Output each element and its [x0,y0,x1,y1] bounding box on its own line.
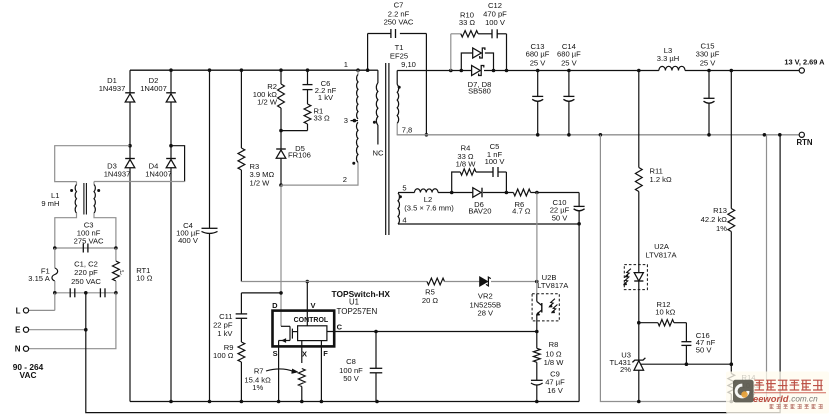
svg-text:TOPSwitch-HX: TOPSwitch-HX [332,289,391,299]
svg-text:10 kΩ: 10 kΩ [655,307,675,316]
svg-text:4: 4 [402,216,406,225]
resistor R9 100 Ohm [213,342,245,362]
svg-text:FR106: FR106 [288,151,311,160]
capacitor C3 100 nF [74,221,104,253]
wire C11 to R9 [240,318,242,342]
svg-text:VAC: VAC [20,370,37,380]
wire L1 left bottom to C3 row [55,213,77,248]
capacitor C7 2.2 nF 250 VAC [384,1,414,38]
svg-text:16 V: 16 V [547,386,564,395]
svg-text:50 V: 50 V [343,374,360,383]
inductor L2 [404,189,454,213]
wire VR2 to opto node [491,280,539,284]
winding T1 NC half [373,70,384,157]
transistor U1 internal MOSFET [279,326,298,342]
diode D3 1N4937 [104,159,135,179]
wire primary ground rail [130,400,579,404]
wire C16 to ref line [685,345,689,366]
svg-text:250 VAC: 250 VAC [384,18,414,27]
svg-text:R7: R7 [254,367,264,376]
svg-text:33 Ω: 33 Ω [314,113,331,122]
winding T1 secondary 9,10-7,8 [397,60,416,135]
svg-text:1 kV: 1 kV [318,93,334,102]
diode D1 1N4937 [99,76,135,102]
resistor R4 33 Ohm 1/8 W [456,144,477,176]
svg-text:10 Ω: 10 Ω [545,349,562,358]
resistor R6 4.7 Ohm [512,189,531,215]
wire opto emitter to C line [535,321,539,333]
wire R8 branch [536,332,538,349]
wire drain line [280,185,282,326]
svg-text:t°: t° [120,269,125,277]
wire T1 pin1 riser [357,70,359,74]
snubber R4 C5 branch [452,172,507,193]
svg-text:3.15 A: 3.15 A [28,274,50,283]
capacitor C15 330 uF 25 V [696,42,720,135]
wire R12 lead [639,322,658,324]
wire F pin [320,341,322,402]
wire R13 branch [730,71,732,209]
junction dots on B+ rail [169,68,369,72]
svg-text:25 V: 25 V [700,58,717,67]
diode D7 SB580 parallel [461,48,493,96]
inductor L3 3.3 uH [657,46,685,70]
wire AC2 bypass to D4 [171,146,185,182]
svg-text:E: E [15,326,21,335]
svg-text:25 V: 25 V [530,59,547,68]
wire AC1 from filter [55,146,130,182]
wire D4 branch [170,146,172,402]
snubber R10 C12 branch [451,34,507,71]
wire D1 branch [129,70,131,146]
resistor R14 10 kOhm [728,364,762,401]
capacitor C6 2.2 nF 1 kV [303,79,337,102]
svg-text:28 V: 28 V [477,308,494,317]
wire C8 branch [374,330,378,402]
svg-text:100 V: 100 V [485,18,506,27]
svg-text:F: F [323,349,328,358]
capacitor C8 100 nF 50 V [339,357,382,383]
svg-text:10 Ω: 10 Ω [136,273,153,282]
svg-text:1/8 W: 1/8 W [544,358,565,367]
diode D6 BAV20 [468,188,491,216]
diode D2 1N4007 [140,76,176,102]
svg-text:250 VAC: 250 VAC [71,277,101,286]
svg-text:eeworld: eeworld [753,393,789,404]
resistor R10 33 Ohm [459,10,478,37]
diode D8 SB580 [472,66,484,76]
label TOPSwitch-HX [332,289,391,316]
diode D5 FR106 [276,144,311,160]
terminal RTN [796,132,812,147]
resistor R2 100 kOhm [253,82,285,108]
wire R12 to C16 [674,323,687,342]
svg-text:(3.5 × 7.6 mm): (3.5 × 7.6 mm) [404,203,454,212]
wire B+ rail corner to NC winding [368,69,378,71]
svg-text:R8: R8 [549,340,559,349]
svg-text:9 mH: 9 mH [41,199,59,208]
wire RTN rail [397,133,800,137]
resistor R13 42.2 kOhm [701,206,735,233]
wire L input [26,293,55,311]
svg-text:R13: R13 [713,206,727,215]
wire U3 cathode [638,323,640,360]
wire output rail after L3 [685,69,799,73]
wire D2 branch [170,70,172,146]
svg-text:LTV817A: LTV817A [645,251,677,260]
label 90-264 VAC [13,362,44,380]
svg-text:C7: C7 [394,1,404,10]
wire R3 column [240,70,242,281]
svg-text:L: L [16,306,21,315]
svg-text:1/2 W: 1/2 W [250,179,271,188]
resistor R1 33 Ohm [304,104,330,124]
wire output rail after D8 [484,69,659,73]
wire E input [26,328,88,332]
capacitor C1 220 pF [70,288,75,297]
wire drain snubber tap [241,291,282,314]
wire S pin [278,341,280,402]
wire U3 anode to ground [638,370,640,401]
thermistor RT1 10 ohm [113,248,153,293]
capacitor C4 100 uF 400 V [176,221,217,245]
wire clamp to D5 [280,131,282,149]
capacitor C10 22 uF 50 V [550,198,585,223]
svg-text:1 kV: 1 kV [217,329,233,338]
wire V pin [306,280,310,326]
wire R9 to ground [240,362,242,402]
svg-text:V: V [311,301,316,310]
wire B+ top rail [130,69,368,71]
wire R11 to U2A [638,192,640,273]
terminal E [15,326,28,335]
svg-text:1N4937: 1N4937 [104,170,131,179]
wire N input [26,293,116,349]
svg-text:1.2 kΩ: 1.2 kΩ [650,175,672,184]
capacitor C12 470 pF 100 V [483,1,507,38]
svg-text:400 V: 400 V [178,236,199,245]
svg-text:N: N [15,345,21,354]
svg-text:LTV817A: LTV817A [537,281,569,290]
svg-text:1%: 1% [252,383,263,392]
svg-text:1/2 W: 1/2 W [257,98,278,107]
wire D6 to R6 [483,191,513,195]
svg-text:100 Ω: 100 Ω [213,351,234,360]
svg-text:R11: R11 [650,166,663,175]
capacitor C2 220 pF [71,260,105,298]
capacitor C16 47 nF 50 V [681,331,715,354]
node AC1 junctions [128,144,173,148]
svg-text:U1: U1 [349,298,359,307]
wire T1 pin3 stub [344,116,358,125]
wire R13 to ref node [730,232,732,365]
wire secondary ground line [600,135,766,404]
wire R6 to C10 [531,191,580,195]
svg-text:2: 2 [343,175,347,184]
wire L1 right bottom to RT1 column [94,213,116,248]
svg-text:S: S [273,349,278,358]
svg-text:C: C [337,323,343,332]
wire TL431 ref line [641,362,733,366]
op-amp U1 TOP257EN box [273,311,335,347]
wire C9 to ground [536,385,538,402]
svg-text:BAV20: BAV20 [468,206,491,215]
svg-text:9,10: 9,10 [401,60,416,69]
transformer T1 core [386,63,389,235]
svg-text:680 µF: 680 µF [526,50,550,59]
svg-text:50 V: 50 V [696,345,713,354]
node clamp junction [279,129,283,133]
wire U2A cathode to node [637,281,641,325]
wire C10 column [577,193,581,226]
label T1 EF25 [390,43,408,60]
resistor R12 10 kOhm [655,300,675,326]
junction dots secondary rail [449,69,463,73]
wire R11 branch [638,71,640,168]
svg-text:CONTROL: CONTROL [294,317,329,324]
wire D3 branch [129,146,131,402]
transistor U3 TL431 [609,351,645,374]
wire bias return pin4 [398,223,579,225]
resistor R8 10 Ohm 1/8 W [533,340,564,367]
watermark eeworld [726,372,829,414]
capacitor C9 47 uF 16 V [531,369,565,394]
winding T1 primary [344,60,358,165]
wire bias return to primary ground [578,224,580,402]
svg-text:13 V, 2.69 A: 13 V, 2.69 A [784,57,825,66]
wire C4 column [209,70,211,401]
svg-text:3: 3 [344,116,348,125]
capacitor C14 680 uF 25 V [557,42,581,135]
svg-text:1/8 W: 1/8 W [456,159,477,168]
capacitor C13 680 uF 25 V [526,42,550,135]
svg-text:SB580: SB580 [468,87,491,96]
capacitor C5 1 nF 100 V [485,142,506,177]
svg-text:20 Ω: 20 Ω [422,296,439,305]
resistor R11 1.2 kOhm [635,166,672,191]
inductor L1 9 mH common-mode choke [41,182,100,215]
opto U2A LTV817A LED [623,242,677,290]
wire output rail left [397,70,471,72]
svg-text:2%: 2% [620,365,631,374]
wire T1 pin2 to drain node [281,163,358,186]
winding T1 bias 5-4 [398,183,407,224]
terminal 13V output [784,57,825,73]
svg-text:42.2 kΩ: 42.2 kΩ [701,215,728,224]
svg-text:1%: 1% [716,224,727,233]
diode D4 1N4007 [145,159,176,179]
svg-text:1: 1 [344,60,348,69]
capacitor C11 22 pF 1 kV [213,312,247,338]
svg-text:NC: NC [373,149,384,158]
terminal N [15,345,29,354]
svg-text:33 Ω: 33 Ω [459,18,476,27]
svg-text:25 V: 25 V [561,59,578,68]
terminal L [16,306,29,315]
svg-text:50 V: 50 V [552,213,569,222]
svg-text:330 µF: 330 µF [696,49,720,58]
opto U2B LTV817A phototransistor [532,273,569,321]
wire C7 branch [368,34,429,137]
wire L2 to D6 [438,191,473,195]
svg-text:5: 5 [402,183,406,192]
svg-text:RTN: RTN [796,138,812,147]
wire C pin line [327,331,537,333]
label U1 pins [272,301,343,359]
svg-text:4.7 Ω: 4.7 Ω [512,207,531,216]
wire V rail [241,281,427,283]
wire C6 R1 branch [281,70,308,130]
svg-text:.com.cn: .com.cn [789,395,818,404]
diode VR2 zener 1N5255B [469,277,501,317]
fuse F1 3.15 A [28,248,57,293]
wire bias line [398,192,415,194]
svg-text:1N4007: 1N4007 [145,170,172,179]
svg-text:100 V: 100 V [485,157,506,166]
resistor R3 3.9 MOhm [238,148,274,188]
svg-text:C8: C8 [346,357,356,366]
svg-text:1N4007: 1N4007 [140,84,167,93]
wire X pin [301,341,303,363]
svg-text:7,8: 7,8 [402,126,413,135]
wire bias to opto collector [536,193,538,294]
svg-text:275 VAC: 275 VAC [74,236,104,245]
wire R8 to C9 [536,362,538,380]
wire C1 C2 row [53,291,118,295]
svg-text:680 µF: 680 µF [557,50,581,59]
resistor R5 20 Ohm [422,278,445,305]
wire C3 row [53,246,118,250]
svg-text:TOP257EN: TOP257EN [337,307,378,316]
wire D5 anode to drain node [279,158,283,187]
wire earth from C1C2 midpoint [86,135,780,413]
wire R2 branch [280,70,282,130]
svg-text:1N4937: 1N4937 [99,84,126,93]
svg-text:220 pF: 220 pF [74,268,98,277]
svg-text:VR2: VR2 [478,291,493,300]
wire R5 to VR2 [445,281,480,283]
wire AC2 from filter [94,181,185,183]
svg-text:X: X [302,350,307,359]
svg-text:D: D [272,301,278,310]
svg-text:U2A: U2A [654,242,670,251]
resistor R7 15.4 kOhm [244,367,305,402]
svg-text:3.3 µH: 3.3 µH [657,54,680,63]
